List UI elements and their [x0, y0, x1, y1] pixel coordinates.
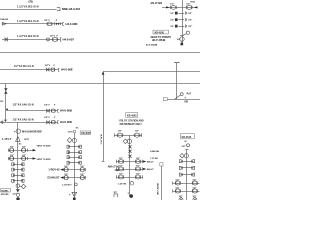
svg-text:(7B): (7B)	[29, 2, 34, 4]
svg-text:PuT: PuT	[187, 94, 192, 96]
svg-text:1/2": 1/2"	[119, 173, 123, 175]
svg-text:40-P-4564B: 40-P-4564B	[146, 43, 158, 46]
svg-text:1/2": 1/2"	[12, 193, 16, 195]
svg-text:1.1/2"X4.0E2-IS-N: 1.1/2"X4.0E2-IS-N	[17, 5, 39, 8]
svg-text:OVA-NF: OVA-NF	[0, 18, 9, 21]
svg-text:1/2": 1/2"	[22, 147, 26, 149]
svg-text:AM-LT-M: AM-LT-M	[108, 165, 120, 169]
svg-text:1/2"V: 1/2"V	[44, 104, 50, 106]
svg-text:1/2": 1/2"	[80, 174, 84, 176]
svg-text:1-1/2"W-T: 1-1/2"W-T	[62, 184, 72, 186]
svg-text:1/2": 1/2"	[170, 13, 174, 15]
svg-text:NEAR TO POINTS: NEAR TO POINTS	[151, 36, 172, 39]
svg-text:1/2"D: 1/2"D	[68, 132, 74, 134]
svg-text:1/2": 1/2"	[10, 155, 14, 157]
svg-text:M4.0A5/GRADE: M4.0A5/GRADE	[22, 129, 42, 133]
svg-text:H4-0-00B: H4-0-00B	[60, 109, 72, 113]
svg-text:1/2": 1/2"	[170, 20, 174, 22]
svg-text:1/2": 1/2"	[182, 146, 186, 148]
svg-text:1/2": 1/2"	[22, 155, 26, 157]
svg-text:AM-LT: AM-LT	[147, 168, 154, 171]
svg-text:AN-LT-NN: AN-LT-NN	[150, 2, 162, 5]
svg-text:HH2: HH2	[191, 2, 196, 4]
svg-text:1/2": 1/2"	[136, 173, 140, 175]
svg-text:1/2"X4.0E4-IS-N: 1/2"X4.0E4-IS-N	[14, 65, 34, 68]
svg-text:KR-4545: KR-4545	[182, 136, 192, 139]
svg-text:VENT TO ATM: VENT TO ATM	[37, 158, 51, 161]
svg-text:1-1/2"W-M: 1-1/2"W-M	[101, 134, 103, 144]
svg-text:H4-0-00N: H4-0-00N	[66, 22, 78, 26]
svg-text:1/2": 1/2"	[135, 130, 139, 132]
svg-text:EXHAUST: EXHAUST	[48, 177, 60, 180]
svg-text:1/2"V: 1/2"V	[44, 117, 50, 119]
svg-text:H4-0-00E: H4-0-00E	[61, 68, 73, 72]
svg-text:1/2": 1/2"	[64, 166, 68, 168]
svg-text:HDV-BD: HDV-BD	[1, 194, 9, 196]
svg-text:4.0A5-NN: 4.0A5-NN	[150, 150, 159, 153]
svg-text:1/2": 1/2"	[188, 20, 192, 22]
svg-text:1-15Y-T: 1-15Y-T	[2, 137, 12, 141]
svg-text:1/2"V: 1/2"V	[45, 65, 51, 67]
svg-text:1/2"X4.0A6-IS-N: 1/2"X4.0A6-IS-N	[13, 103, 34, 106]
svg-text:1.1/2"X4.0E1-IS-N: 1.1/2"X4.0E1-IS-N	[17, 20, 39, 23]
svg-text:1/2": 1/2"	[136, 158, 140, 160]
svg-text:1/2": 1/2"	[170, 26, 174, 28]
svg-text:1/2": 1/2"	[175, 179, 179, 181]
svg-text:KR-4545: KR-4545	[155, 31, 165, 34]
svg-text:1/2": 1/2"	[64, 174, 68, 176]
svg-text:NC: NC	[0, 101, 4, 103]
svg-text:VENT TO ATM: VENT TO ATM	[37, 144, 51, 147]
svg-text:H4-0-007: H4-0-007	[63, 37, 75, 41]
svg-text:1/2": 1/2"	[175, 187, 179, 189]
svg-text:1/2": 1/2"	[188, 13, 192, 15]
svg-text:4564B2: 4564B2	[1, 190, 9, 193]
svg-text:KR-4545: KR-4545	[127, 114, 137, 117]
svg-text:NC: NC	[4, 120, 8, 122]
svg-text:INSTRUMENT ONLY: INSTRUMENT ONLY	[120, 124, 143, 126]
svg-text:1/2": 1/2"	[170, 3, 174, 5]
svg-text:1-1/2"W1: 1-1/2"W1	[118, 183, 128, 185]
svg-text:KR-4545: KR-4545	[81, 132, 91, 135]
svg-text:HN-P-4564B: HN-P-4564B	[157, 183, 160, 195]
svg-text:1/2": 1/2"	[119, 158, 123, 160]
svg-text:HD: HD	[185, 101, 189, 104]
svg-text:1/2": 1/2"	[136, 165, 140, 167]
svg-text:1/2": 1/2"	[10, 147, 14, 149]
svg-text:UTILITY STATION AND: UTILITY STATION AND	[119, 119, 144, 122]
svg-text:1-ROV-05: 1-ROV-05	[48, 169, 60, 172]
svg-text:1-LT-NH: 1-LT-NH	[150, 158, 158, 160]
svg-text:1/2": 1/2"	[192, 187, 196, 189]
svg-text:1.1/2"X4.0E2-IS-N: 1.1/2"X4.0E2-IS-N	[17, 35, 39, 38]
svg-text:1/2": 1/2"	[118, 130, 122, 132]
svg-text:1/2": 1/2"	[192, 179, 196, 181]
svg-text:HD-P-4564B: HD-P-4564B	[152, 39, 166, 42]
svg-text:NNE-H4-0-001: NNE-H4-0-001	[62, 7, 81, 11]
svg-text:1/2": 1/2"	[119, 165, 123, 167]
svg-text:1/2": 1/2"	[188, 26, 192, 28]
svg-text:H4-0-00D: H4-0-00D	[60, 120, 72, 124]
svg-text:1/2": 1/2"	[80, 166, 84, 168]
svg-text:1/2"D: 1/2"D	[24, 139, 30, 141]
svg-text:AM-LT: AM-LT	[147, 160, 154, 163]
svg-text:1/2"X4.0A5-IS-N: 1/2"X4.0A5-IS-N	[13, 118, 34, 121]
svg-text:M: M	[185, 141, 187, 143]
